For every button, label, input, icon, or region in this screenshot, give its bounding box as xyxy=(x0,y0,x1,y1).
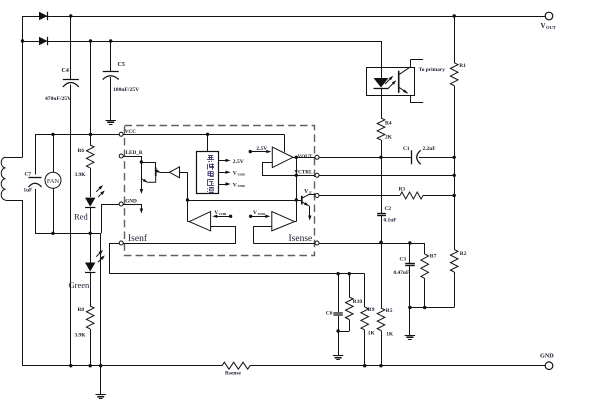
svg-text:GND: GND xyxy=(125,198,137,204)
pin VF xyxy=(315,194,319,198)
svg-text:Isenf: Isenf xyxy=(128,233,148,244)
svg-text:ccm: ccm xyxy=(258,211,266,216)
transistor VF follower xyxy=(301,196,303,205)
svg-text:V: V xyxy=(233,182,237,188)
svg-text:Red: Red xyxy=(74,212,88,222)
node junction dots top xyxy=(69,14,72,17)
ref output 2.5V xyxy=(219,160,229,162)
inductor L1 xyxy=(6,157,23,159)
wire GND internal arrow xyxy=(123,204,141,206)
svg-text:2.2uF: 2.2uF xyxy=(423,146,437,152)
svg-text:To primary: To primary xyxy=(419,67,446,73)
resistor R1 xyxy=(454,16,456,63)
wire to-primary bottom xyxy=(410,102,423,104)
svg-text:C5: C5 xyxy=(118,62,125,68)
wire feedback loop xyxy=(262,163,264,176)
svg-text:V: V xyxy=(253,210,257,216)
pin Isenf xyxy=(119,241,123,245)
wire VOUT line xyxy=(319,157,412,159)
svg-text:C4: C4 xyxy=(62,68,69,74)
svg-text:V: V xyxy=(233,171,237,177)
wire output vertical xyxy=(296,157,298,221)
op-amp error amp xyxy=(272,147,293,168)
buffer inverter xyxy=(170,167,180,178)
svg-text:0.47uF: 0.47uF xyxy=(394,270,410,276)
svg-text:2K: 2K xyxy=(385,135,393,141)
diode D1 xyxy=(39,12,48,20)
LED Green xyxy=(90,233,92,262)
terminal GND xyxy=(545,362,553,370)
svg-text:2.5V: 2.5V xyxy=(256,146,267,152)
transistor mirror Q1 xyxy=(141,162,155,164)
svg-text:1K: 1K xyxy=(368,331,376,337)
wire Isenf external xyxy=(110,243,120,245)
wire left vertical rail xyxy=(22,16,24,157)
svg-text:Green: Green xyxy=(69,280,91,290)
wire bottom rail xyxy=(23,365,223,367)
svg-text:100uF/25V: 100uF/25V xyxy=(113,87,139,93)
wire fan box left xyxy=(35,134,37,174)
pin GND xyxy=(119,202,123,206)
wire Isense riser xyxy=(253,226,272,228)
wire rail2 drop xyxy=(381,41,383,68)
wire Isense internal xyxy=(253,243,315,245)
pin VCC xyxy=(119,132,123,136)
svg-text:2.5V: 2.5V xyxy=(233,159,244,165)
wire VCTRL internal xyxy=(262,175,315,177)
wire 2.5V input stub xyxy=(249,150,252,153)
ref output Vccm lower xyxy=(219,184,229,186)
svg-text:R3: R3 xyxy=(399,187,406,193)
wire top rail VOUT xyxy=(42,16,546,18)
wire LED_R internal xyxy=(123,156,141,158)
svg-text:OUT: OUT xyxy=(546,25,556,30)
svg-text:R9: R9 xyxy=(368,307,375,313)
svg-text:R7: R7 xyxy=(430,254,437,260)
svg-text:GND: GND xyxy=(540,353,554,360)
svg-text:R2: R2 xyxy=(460,251,467,257)
wire Isenf riser xyxy=(211,226,236,228)
svg-text:LED_R: LED_R xyxy=(126,150,143,156)
wire GND pin external xyxy=(101,204,119,206)
svg-text:ccm: ccm xyxy=(238,183,246,188)
LED Red xyxy=(85,198,95,207)
svg-text:R1: R1 xyxy=(459,63,466,69)
wire fan box bottom xyxy=(35,233,101,235)
svg-text:R8: R8 xyxy=(78,307,85,313)
wire Isenf internal xyxy=(123,243,236,245)
resistor R8 xyxy=(90,273,92,307)
svg-text:C1: C1 xyxy=(403,146,410,152)
op-amp Isenf amp xyxy=(189,212,210,231)
resistor R7 xyxy=(424,243,426,254)
pin VCTRL xyxy=(315,173,319,177)
wire second rail xyxy=(23,41,42,43)
capacitor C7 xyxy=(29,177,42,179)
transistor mirror Q2 xyxy=(141,162,143,190)
svg-text:ccm: ccm xyxy=(219,211,227,216)
ground symbol sense xyxy=(405,335,416,337)
svg-text:ccm: ccm xyxy=(238,171,246,176)
svg-text:V: V xyxy=(214,210,218,216)
svg-text:C3: C3 xyxy=(400,257,407,263)
svg-text:470uF/25V: 470uF/25V xyxy=(45,96,71,102)
wire internal VCC rail xyxy=(123,134,284,136)
wire R4 to VOUT line xyxy=(381,140,383,157)
resistor R9 xyxy=(364,274,366,307)
ground below C5 xyxy=(105,120,116,122)
reference voltage source block xyxy=(207,134,209,151)
svg-text:C6: C6 xyxy=(326,311,333,317)
svg-text:R10: R10 xyxy=(353,299,363,305)
svg-text:1K: 1K xyxy=(386,332,394,338)
capacitor C4 xyxy=(70,16,72,79)
capacitor C6 xyxy=(338,274,340,313)
pin Isense xyxy=(315,241,319,245)
svg-text:1uF: 1uF xyxy=(24,188,33,194)
svg-text:Isense: Isense xyxy=(289,234,313,244)
resistor R4 xyxy=(381,96,383,118)
resistor R3 xyxy=(319,195,400,197)
resistor R2 xyxy=(450,250,458,273)
wire base line xyxy=(188,200,302,202)
svg-text:R4: R4 xyxy=(385,121,392,127)
wire VCTRL line xyxy=(319,175,454,177)
opto phototransistor xyxy=(398,71,400,93)
fan motor FAN xyxy=(53,134,55,172)
svg-text:VCC: VCC xyxy=(125,129,136,135)
svg-text:3.9K: 3.9K xyxy=(75,333,87,339)
resistor Rsense xyxy=(222,362,250,369)
capacitor C1 xyxy=(411,150,413,164)
wire sense gnd link xyxy=(410,307,454,309)
svg-text:R5: R5 xyxy=(386,308,393,314)
wire ground branch xyxy=(100,233,102,394)
ref output Vccm upper xyxy=(219,172,229,174)
diode D2 xyxy=(39,37,48,45)
resistor R5 xyxy=(379,241,382,244)
svg-text:FAN: FAN xyxy=(47,178,60,185)
resistor R10 xyxy=(349,274,351,297)
svg-text:V: V xyxy=(541,22,546,30)
ground symbol bottom left xyxy=(95,394,106,396)
svg-text:C2: C2 xyxy=(385,206,392,212)
ground symbol C6 xyxy=(333,355,344,357)
terminal VOUT xyxy=(545,12,553,20)
pin VOUT xyxy=(315,155,319,159)
svg-text:0.1uF: 0.1uF xyxy=(384,218,398,224)
wire from rail2 down xyxy=(90,41,92,134)
svg-text:V: V xyxy=(304,188,309,195)
capacitor C3 xyxy=(409,243,411,263)
opto LED xyxy=(381,68,383,78)
wire VCC feed xyxy=(35,134,119,136)
IC dashed box U1 xyxy=(125,126,315,256)
svg-text:3.9K: 3.9K xyxy=(75,172,87,178)
optocoupler U2 box xyxy=(367,68,415,96)
capacitor C5 xyxy=(110,41,112,72)
svg-text:C7: C7 xyxy=(25,172,32,178)
wire mid vertical xyxy=(454,157,456,249)
wire Vccm stub left xyxy=(229,215,232,218)
svg-text:Rsense: Rsense xyxy=(225,371,241,377)
op-amp Isense amp xyxy=(272,212,295,231)
svg-text:R6: R6 xyxy=(78,148,85,154)
wire Isense line xyxy=(319,243,425,245)
wire to-primary top xyxy=(410,59,423,61)
pin LED_R xyxy=(119,154,123,158)
resistor R6 xyxy=(90,134,92,145)
wire op-amp output xyxy=(293,157,315,159)
wire Vccm stub right xyxy=(249,215,252,218)
capacitor C2 xyxy=(381,157,383,213)
